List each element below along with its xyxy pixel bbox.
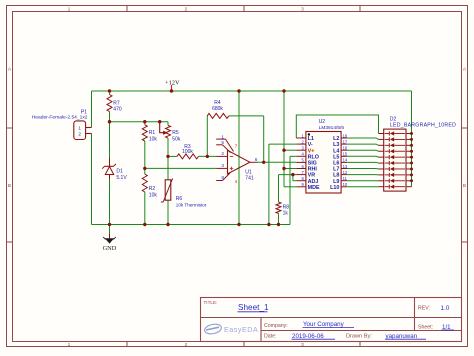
- svg-text:R7: R7: [113, 100, 120, 106]
- svg-text:10: 10: [343, 182, 348, 187]
- svg-text:470: 470: [113, 107, 122, 113]
- svg-text:3: 3: [301, 342, 304, 348]
- svg-text:3: 3: [301, 7, 304, 13]
- svg-text:Your Company: Your Company: [303, 321, 345, 328]
- svg-text:14: 14: [343, 158, 348, 163]
- svg-text:A: A: [463, 67, 467, 73]
- svg-text:EasyEDA: EasyEDA: [224, 325, 258, 334]
- svg-text:5.1V: 5.1V: [116, 175, 127, 181]
- svg-text:10k Thermistor: 10k Thermistor: [176, 203, 207, 208]
- svg-text:LED_BARGRAPH_10RED: LED_BARGRAPH_10RED: [390, 122, 456, 128]
- svg-text:2: 2: [221, 151, 224, 157]
- svg-text:V-: V-: [308, 142, 313, 148]
- svg-text:10k: 10k: [149, 192, 158, 198]
- svg-text:RLO: RLO: [308, 154, 319, 160]
- svg-text:Sheet_1: Sheet_1: [238, 303, 269, 312]
- svg-text:Company:: Company:: [264, 323, 288, 329]
- svg-text:100k: 100k: [182, 149, 193, 155]
- svg-text:VR: VR: [308, 173, 316, 179]
- svg-text:17: 17: [343, 139, 348, 144]
- svg-text:6: 6: [255, 157, 258, 163]
- svg-text:L9: L9: [333, 179, 339, 185]
- svg-text:11: 11: [343, 176, 348, 181]
- svg-text:680k: 680k: [212, 106, 223, 112]
- svg-text:+12V: +12V: [165, 79, 180, 86]
- svg-text:1: 1: [221, 135, 224, 141]
- svg-text:P1: P1: [81, 109, 87, 115]
- svg-text:2: 2: [185, 7, 188, 13]
- svg-text:50k: 50k: [172, 137, 181, 143]
- svg-text:2: 2: [78, 132, 81, 137]
- svg-text:15: 15: [343, 152, 348, 157]
- svg-text:12: 12: [343, 170, 348, 175]
- svg-text:7: 7: [235, 144, 238, 149]
- svg-text:5: 5: [221, 140, 224, 146]
- svg-text:4: 4: [235, 179, 238, 184]
- svg-text:Header-Female-2.54_1x2: Header-Female-2.54_1x2: [32, 115, 88, 121]
- svg-text:18: 18: [343, 133, 348, 138]
- svg-text:1: 1: [68, 7, 71, 13]
- svg-text:R1: R1: [149, 130, 156, 136]
- svg-text:3: 3: [221, 163, 224, 169]
- svg-text:L10: L10: [330, 185, 339, 191]
- svg-text:10k: 10k: [149, 137, 158, 143]
- svg-text:2019-06-06: 2019-06-06: [292, 333, 324, 340]
- svg-text:8: 8: [221, 175, 224, 181]
- svg-text:B: B: [8, 183, 11, 189]
- svg-text:R8: R8: [283, 204, 290, 210]
- svg-text:Drawn By:: Drawn By:: [346, 333, 372, 339]
- svg-text:741: 741: [245, 176, 254, 182]
- svg-text:RHI: RHI: [308, 167, 318, 173]
- svg-text:R5: R5: [172, 130, 179, 136]
- svg-text:B: B: [463, 183, 466, 189]
- svg-text:1: 1: [68, 342, 71, 348]
- svg-text:13: 13: [343, 164, 348, 169]
- svg-text:1k: 1k: [283, 211, 289, 217]
- svg-text:REV:: REV:: [418, 306, 430, 312]
- svg-text:2: 2: [185, 342, 188, 348]
- svg-text:SIG: SIG: [308, 161, 317, 167]
- svg-text:yapanuwan: yapanuwan: [386, 333, 418, 340]
- svg-text:U2: U2: [319, 119, 326, 125]
- svg-text:L1: L1: [308, 136, 314, 142]
- svg-text:A: A: [8, 67, 12, 73]
- svg-text:1.0: 1.0: [441, 305, 450, 312]
- svg-text:L8: L8: [333, 173, 339, 179]
- svg-text:Sheet:: Sheet:: [418, 324, 433, 330]
- svg-text:TITLE:: TITLE:: [204, 300, 218, 305]
- svg-text:ADJ: ADJ: [308, 179, 319, 185]
- svg-text:L2: L2: [333, 136, 339, 142]
- svg-text:R6: R6: [176, 196, 183, 202]
- svg-text:16: 16: [343, 146, 348, 151]
- svg-text:R2: R2: [149, 186, 156, 192]
- svg-text:LM3914/5/6: LM3914/5/6: [319, 125, 345, 131]
- svg-text:L3: L3: [333, 142, 339, 148]
- svg-text:D1: D1: [116, 168, 123, 174]
- svg-text:1: 1: [78, 126, 81, 131]
- svg-text:MDE: MDE: [308, 185, 320, 191]
- svg-text:Date:: Date:: [264, 334, 276, 340]
- svg-text:L7: L7: [333, 167, 339, 173]
- svg-text:L4: L4: [333, 148, 339, 154]
- svg-text:L6: L6: [333, 161, 339, 167]
- svg-text:V+: V+: [308, 148, 315, 154]
- svg-text:L5: L5: [333, 154, 339, 160]
- svg-text:GND: GND: [103, 245, 117, 252]
